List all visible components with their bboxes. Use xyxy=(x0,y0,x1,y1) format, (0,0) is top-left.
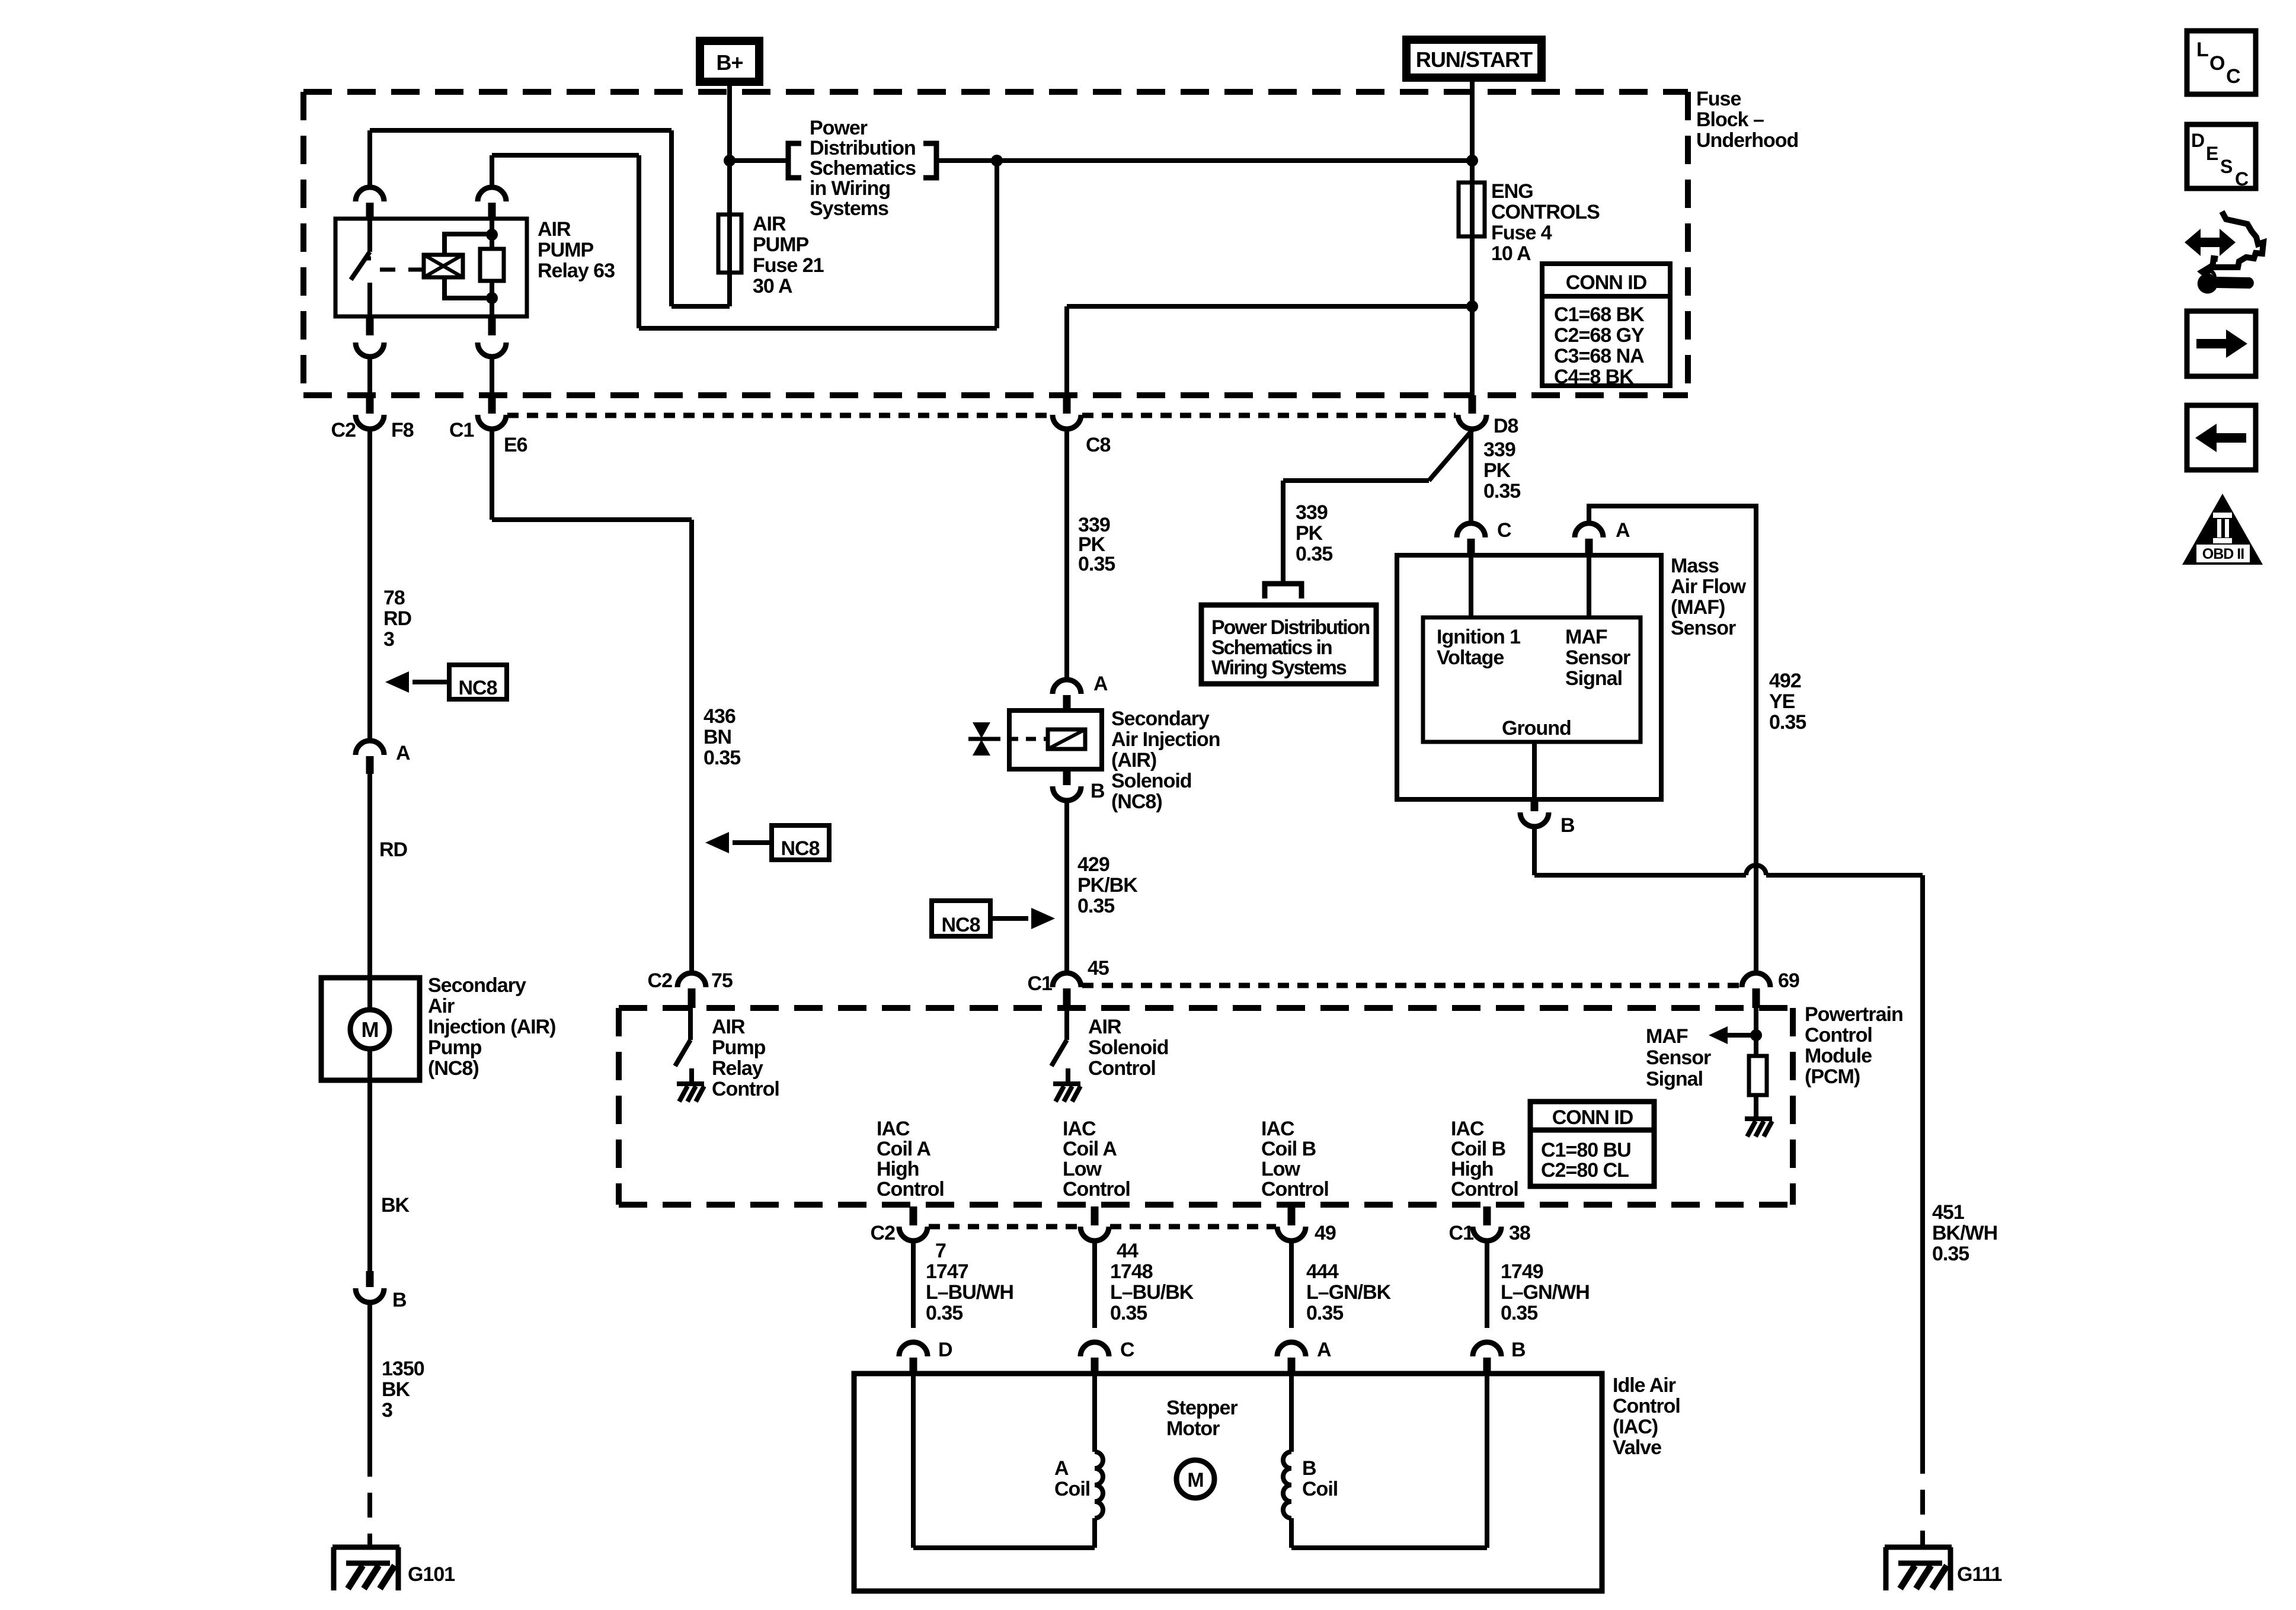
svg-text:Relay 63: Relay 63 xyxy=(538,260,615,282)
svg-text:44: 44 xyxy=(1117,1240,1139,1262)
PCM dashed border xyxy=(619,1005,1793,1011)
relay coil bottom wire xyxy=(445,277,492,298)
IAC connector dotted line xyxy=(929,1224,1079,1230)
svg-text:Coil B: Coil B xyxy=(1261,1138,1316,1160)
fuse block connector dotted line xyxy=(507,413,1051,418)
connector pin 44 IAC wire 1748 L-BU/BK xyxy=(1091,1206,1099,1225)
connector pin A AIR solenoid xyxy=(1053,680,1081,694)
connector C2 pin F8 xyxy=(366,395,374,414)
junction RUN/START power distribution xyxy=(1466,155,1478,167)
svg-text:G111: G111 xyxy=(1957,1563,2002,1586)
svg-text:M: M xyxy=(1187,1469,1203,1491)
svg-text:C2=80 CL: C2=80 CL xyxy=(1541,1159,1629,1182)
svg-text:45: 45 xyxy=(1088,957,1109,980)
svg-text:M: M xyxy=(362,1017,379,1042)
ground G101 xyxy=(332,1545,399,1550)
svg-text:Block –: Block – xyxy=(1696,108,1764,131)
arrow MAF sensor signal xyxy=(1709,1026,1728,1044)
svg-text:Low: Low xyxy=(1261,1158,1301,1180)
svg-text:BN: BN xyxy=(703,726,731,748)
svg-text:451: 451 xyxy=(1932,1201,1964,1224)
wire 78 RD from F8 to AIR pump xyxy=(367,429,372,741)
svg-text:O: O xyxy=(2209,52,2225,75)
svg-text:Schematics: Schematics xyxy=(810,157,916,180)
wire 1350 BK dashed section xyxy=(367,1452,372,1547)
svg-text:C: C xyxy=(2235,168,2249,190)
connector pin 49 IAC wire 444 L-GN/BK xyxy=(1288,1206,1296,1225)
svg-text:Secondary: Secondary xyxy=(428,974,526,997)
connector pin A AIR pump xyxy=(356,741,384,755)
svg-text:Ignition 1: Ignition 1 xyxy=(1437,626,1520,648)
ground PCM solenoid control xyxy=(1053,1081,1080,1086)
svg-text:B: B xyxy=(1560,814,1575,837)
svg-text:RD: RD xyxy=(379,838,408,861)
svg-text:B: B xyxy=(1091,780,1105,802)
connector pin B MAF xyxy=(1531,799,1539,811)
svg-text:S: S xyxy=(2220,156,2233,177)
svg-text:C8: C8 xyxy=(1086,434,1111,456)
icon schematic reference double arrow xyxy=(2185,229,2236,256)
connector pin B AIR pump xyxy=(366,1271,374,1287)
svg-text:A: A xyxy=(1054,1457,1069,1480)
svg-text:1748: 1748 xyxy=(1110,1260,1153,1283)
wire relay pin E6 down xyxy=(490,357,494,398)
ground G111 xyxy=(1885,1545,1952,1550)
power symbol RUN/START xyxy=(1406,40,1542,78)
svg-text:CONN ID: CONN ID xyxy=(1566,271,1647,294)
wire relay pin F8 down xyxy=(367,357,372,398)
solenoid coil rect with diagonal xyxy=(1048,729,1085,749)
MAF sensor inner box xyxy=(1423,617,1641,742)
connector pin A IAC valve xyxy=(1277,1342,1306,1356)
svg-text:C1: C1 xyxy=(1028,972,1053,995)
svg-text:7: 7 xyxy=(935,1240,946,1262)
reference box Power Distribution Schematics in Wiring Systems xyxy=(1201,605,1376,684)
svg-text:L–BU/BK: L–BU/BK xyxy=(1110,1281,1194,1304)
svg-text:L–GN/BK: L–GN/BK xyxy=(1306,1281,1392,1304)
power symbol B+ xyxy=(700,41,759,82)
relay mechanical link dashes xyxy=(380,268,423,272)
svg-text:Control: Control xyxy=(1063,1178,1130,1201)
svg-text:NC8: NC8 xyxy=(458,677,497,699)
fuse F4 ENG CONTROLS 10A xyxy=(1459,183,1485,236)
connector pin 38 C1 IAC wire 1749 L-GN/WH xyxy=(1483,1206,1491,1225)
svg-text:Distribution: Distribution xyxy=(810,137,916,159)
svg-text:Idle Air: Idle Air xyxy=(1613,1374,1676,1397)
wire 451 dashed section xyxy=(1920,1449,1925,1547)
svg-text:C2: C2 xyxy=(331,419,356,441)
svg-text:Control: Control xyxy=(1088,1057,1156,1080)
reference NC8 arrow to 78 RD xyxy=(449,665,507,699)
svg-text:Coil A: Coil A xyxy=(877,1138,930,1160)
IAC coil A wires xyxy=(911,1374,916,1548)
svg-text:Signal: Signal xyxy=(1565,667,1622,690)
connector pin relay 86 top-left xyxy=(356,187,384,201)
svg-text:Injection (AIR): Injection (AIR) xyxy=(428,1016,555,1038)
svg-text:B+: B+ xyxy=(716,50,743,75)
IAC coil A winding xyxy=(1095,1452,1103,1518)
svg-text:L–GN/WH: L–GN/WH xyxy=(1501,1281,1590,1304)
svg-text:PUMP: PUMP xyxy=(753,233,809,256)
svg-text:Low: Low xyxy=(1063,1158,1102,1180)
svg-text:0.35: 0.35 xyxy=(1483,480,1520,502)
svg-text:C: C xyxy=(1497,519,1511,542)
svg-text:B: B xyxy=(392,1289,407,1311)
svg-text:IAC: IAC xyxy=(1451,1118,1484,1140)
icon schematic reference outline xyxy=(2212,212,2263,267)
svg-text:Coil: Coil xyxy=(1054,1478,1090,1500)
svg-text:Air Flow: Air Flow xyxy=(1671,575,1747,598)
MAF signal wire and junction xyxy=(1754,1008,1758,1035)
junction relay coil bottom xyxy=(486,292,498,304)
svg-text:NC8: NC8 xyxy=(781,837,819,860)
svg-text:0.35: 0.35 xyxy=(1078,553,1115,575)
svg-text:Control: Control xyxy=(1805,1024,1872,1046)
svg-text:D: D xyxy=(938,1339,952,1361)
wire B+ to fuse 21 xyxy=(727,86,732,276)
PCM input resistor xyxy=(1754,1035,1758,1056)
svg-text:1350: 1350 xyxy=(382,1358,424,1380)
svg-text:429: 429 xyxy=(1077,853,1109,876)
icon forward arrow box xyxy=(2187,311,2256,376)
svg-text:75: 75 xyxy=(711,969,733,992)
svg-text:AIR: AIR xyxy=(753,213,786,235)
PCM connector dotted line xyxy=(1082,983,1741,988)
svg-text:PK/BK: PK/BK xyxy=(1077,874,1138,897)
IAC coil B winding xyxy=(1283,1452,1291,1518)
ground PCM relay control xyxy=(677,1081,704,1086)
svg-text:0.35: 0.35 xyxy=(1296,543,1332,565)
svg-text:C4=8 BK: C4=8 BK xyxy=(1554,366,1634,388)
reference NC8 arrow to 436 BN xyxy=(772,825,829,860)
wire 451 BK/WH xyxy=(1920,875,1925,1449)
svg-text:OBD II: OBD II xyxy=(2202,546,2244,562)
reference bracket down to power distribution xyxy=(1265,584,1302,598)
junction node relay coil feed xyxy=(991,155,1003,167)
svg-text:Solenoid: Solenoid xyxy=(1088,1036,1169,1059)
svg-text:L–BU/WH: L–BU/WH xyxy=(926,1281,1013,1304)
relay coil top wire xyxy=(445,234,492,255)
svg-text:Valve: Valve xyxy=(1613,1436,1661,1459)
wire MAF A to 492 YE xyxy=(1589,506,1756,973)
svg-text:C1: C1 xyxy=(1449,1222,1474,1244)
wire 339 PK branch diagonal xyxy=(1429,430,1472,481)
svg-text:PK: PK xyxy=(1483,459,1511,482)
svg-text:C: C xyxy=(2226,65,2240,88)
svg-text:(MAF): (MAF) xyxy=(1671,596,1725,619)
relay box AIR PUMP Relay 63 xyxy=(335,219,527,316)
svg-text:Voltage: Voltage xyxy=(1437,646,1504,669)
svg-text:MAF: MAF xyxy=(1646,1025,1688,1048)
svg-text:A: A xyxy=(1616,519,1630,542)
svg-text:CONTROLS: CONTROLS xyxy=(1491,201,1600,223)
svg-text:C1=68 BK: C1=68 BK xyxy=(1554,303,1645,326)
svg-text:A: A xyxy=(1317,1339,1331,1361)
fuse F21 AIR PUMP 30A xyxy=(718,215,741,273)
svg-text:0.35: 0.35 xyxy=(1306,1302,1343,1324)
svg-text:3: 3 xyxy=(383,628,394,651)
svg-text:0.35: 0.35 xyxy=(1769,711,1806,734)
junction node B+ xyxy=(724,155,736,167)
solenoid mechanical link dashes xyxy=(990,737,1048,741)
svg-text:Fuse 4: Fuse 4 xyxy=(1491,222,1552,244)
connector pin relay 87 bottom-right xyxy=(488,316,496,335)
svg-text:Underhood: Underhood xyxy=(1696,129,1798,152)
svg-text:in Wiring: in Wiring xyxy=(810,177,890,200)
svg-text:(PCM): (PCM) xyxy=(1805,1065,1860,1088)
svg-text:Coil B: Coil B xyxy=(1451,1138,1506,1160)
icon LOC box xyxy=(2187,31,2256,94)
svg-text:Air: Air xyxy=(428,995,455,1017)
svg-text:IAC: IAC xyxy=(877,1118,910,1140)
svg-text:A: A xyxy=(396,742,410,764)
svg-text:Solenoid: Solenoid xyxy=(1111,770,1192,792)
AIR pump motor circle xyxy=(350,1010,389,1049)
svg-text:(AIR): (AIR) xyxy=(1111,749,1156,772)
svg-text:D8: D8 xyxy=(1494,415,1518,437)
svg-text:B: B xyxy=(1511,1339,1526,1361)
svg-text:Control: Control xyxy=(1261,1178,1329,1201)
svg-text:339: 339 xyxy=(1483,438,1515,461)
svg-text:C1: C1 xyxy=(449,419,474,441)
svg-text:Sensor: Sensor xyxy=(1646,1046,1711,1069)
svg-text:Sensor: Sensor xyxy=(1565,646,1630,669)
svg-text:IAC: IAC xyxy=(1063,1118,1096,1140)
svg-text:Secondary: Secondary xyxy=(1111,708,1210,730)
svg-text:(NC8): (NC8) xyxy=(1111,790,1162,813)
wire MAF ground pin B xyxy=(1532,742,1537,799)
svg-text:Stepper: Stepper xyxy=(1166,1397,1237,1419)
connector C1 pin E6 xyxy=(488,395,496,414)
wire 1350 BK to G101 xyxy=(367,1302,372,1452)
svg-text:1747: 1747 xyxy=(926,1260,968,1283)
reference bracket left xyxy=(788,143,801,178)
svg-text:0.35: 0.35 xyxy=(1077,895,1114,917)
svg-text:Module: Module xyxy=(1805,1045,1872,1067)
junction ENG fuse output xyxy=(1466,300,1478,312)
svg-text:Motor: Motor xyxy=(1166,1417,1220,1440)
wire 339 PK C8 to solenoid A xyxy=(1064,429,1069,680)
svg-text:High: High xyxy=(1451,1158,1494,1180)
relay resistor bottom wire xyxy=(490,281,494,316)
svg-text:PUMP: PUMP xyxy=(538,239,594,261)
connector pin D8 xyxy=(1469,395,1476,414)
svg-text:YE: YE xyxy=(1769,690,1795,713)
wire RUN/START down to D8 xyxy=(1470,78,1475,398)
svg-text:E: E xyxy=(2206,143,2218,164)
svg-text:Control: Control xyxy=(712,1078,779,1100)
AIR solenoid box xyxy=(1009,710,1102,769)
svg-text:Fuse: Fuse xyxy=(1696,88,1741,110)
svg-text:C: C xyxy=(1120,1339,1134,1361)
connector pin A MAF xyxy=(1575,523,1603,537)
icon DESC box xyxy=(2187,124,2256,188)
connector pin 75 C2 PCM xyxy=(677,973,706,987)
svg-text:E6: E6 xyxy=(504,434,527,456)
relay coil box with X xyxy=(424,255,463,277)
svg-text:(NC8): (NC8) xyxy=(428,1057,479,1080)
wire ENG fuse to C8 xyxy=(1067,304,1472,309)
svg-text:69: 69 xyxy=(1778,969,1799,992)
connector pin C8 xyxy=(1064,306,1069,398)
connector pin B IAC valve xyxy=(1473,1342,1501,1356)
wire relay switch feed from fuse 21 xyxy=(727,273,732,306)
IAC valve box xyxy=(854,1374,1602,1591)
connector pin relay 85 top-right xyxy=(478,187,506,201)
svg-text:Relay: Relay xyxy=(712,1057,763,1080)
svg-text:Power: Power xyxy=(810,117,868,139)
svg-text:49: 49 xyxy=(1315,1222,1336,1244)
svg-text:Schematics in: Schematics in xyxy=(1211,636,1332,659)
svg-text:0.35: 0.35 xyxy=(1501,1302,1537,1324)
svg-text:Coil: Coil xyxy=(1302,1478,1338,1500)
wire BK pump to ground xyxy=(367,1049,372,1271)
wire 339 PK D8 down to MAF C xyxy=(1469,429,1473,524)
svg-text:78: 78 xyxy=(383,587,405,609)
connector pin D IAC valve xyxy=(899,1342,928,1356)
svg-text:RD: RD xyxy=(383,607,412,630)
wire RD to pump xyxy=(367,774,372,1010)
solenoid valve bowtie xyxy=(973,722,990,738)
svg-text:Power Distribution: Power Distribution xyxy=(1211,616,1369,639)
svg-text:Coil A: Coil A xyxy=(1063,1138,1117,1160)
svg-text:Control: Control xyxy=(877,1178,944,1201)
svg-text:Control: Control xyxy=(1613,1395,1680,1417)
reference bracket right xyxy=(923,143,936,178)
junction relay coil top xyxy=(486,229,498,241)
table CONN ID PCM xyxy=(1530,1102,1654,1186)
relay resistor xyxy=(490,219,494,249)
svg-text:RUN/START: RUN/START xyxy=(1416,47,1533,72)
svg-text:High: High xyxy=(877,1158,919,1180)
wire 436 BN from E6 to PCM 75 xyxy=(490,429,494,520)
svg-text:BK: BK xyxy=(381,1194,410,1217)
svg-text:Fuse 21: Fuse 21 xyxy=(753,254,824,277)
svg-text:C2=68 GY: C2=68 GY xyxy=(1554,324,1645,347)
svg-text:PK: PK xyxy=(1296,522,1323,545)
svg-text:Control: Control xyxy=(1451,1178,1518,1201)
svg-text:Pump: Pump xyxy=(428,1036,482,1059)
svg-text:ENG: ENG xyxy=(1491,180,1533,203)
svg-text:NC8: NC8 xyxy=(941,914,980,936)
svg-text:492: 492 xyxy=(1769,670,1801,692)
connector pin C MAF xyxy=(1457,523,1485,537)
svg-text:BK: BK xyxy=(382,1378,411,1401)
wire MAF B ground to 451 xyxy=(1532,827,1537,875)
MAF sensor outer box xyxy=(1397,555,1661,799)
svg-text:F8: F8 xyxy=(391,419,414,441)
svg-text:3: 3 xyxy=(382,1399,392,1422)
svg-text:AIR: AIR xyxy=(538,218,571,241)
icon OBD II triangle xyxy=(2182,494,2263,565)
svg-text:Sensor: Sensor xyxy=(1671,617,1736,639)
AIR pump box xyxy=(321,978,420,1080)
svg-text:0.35: 0.35 xyxy=(926,1302,962,1324)
svg-text:30 A: 30 A xyxy=(753,275,792,297)
svg-text:444: 444 xyxy=(1306,1260,1339,1283)
svg-text:38: 38 xyxy=(1509,1222,1530,1244)
svg-text:L: L xyxy=(2196,39,2208,61)
MAF wires into inner box xyxy=(1469,555,1473,617)
AIR pump relay control switch xyxy=(688,1008,693,1040)
relay switch blade xyxy=(351,252,370,280)
connector pin C IAC valve xyxy=(1080,1342,1109,1356)
table CONN ID fuse block xyxy=(1542,264,1670,386)
svg-text:0.35: 0.35 xyxy=(1932,1243,1969,1265)
svg-text:C2: C2 xyxy=(648,969,673,992)
wire crossover hop over 492 YE xyxy=(1746,865,1766,875)
icon wrench xyxy=(2197,263,2254,294)
connector pin B AIR solenoid xyxy=(1063,769,1071,785)
svg-text:CONN ID: CONN ID xyxy=(1552,1106,1633,1129)
IAC motor circle xyxy=(1176,1460,1214,1498)
svg-text:Systems: Systems xyxy=(810,197,888,220)
svg-text:10 A: 10 A xyxy=(1491,242,1531,265)
svg-text:AIR: AIR xyxy=(1088,1016,1121,1038)
svg-text:(IAC): (IAC) xyxy=(1613,1416,1658,1438)
svg-text:A: A xyxy=(1093,673,1108,695)
svg-text:Mass: Mass xyxy=(1671,555,1719,577)
svg-text:0.35: 0.35 xyxy=(1110,1302,1147,1324)
svg-text:C2: C2 xyxy=(871,1222,896,1244)
svg-text:1749: 1749 xyxy=(1501,1260,1543,1283)
svg-text:MAF: MAF xyxy=(1565,626,1607,648)
svg-text:IAC: IAC xyxy=(1261,1118,1294,1140)
svg-text:Pump: Pump xyxy=(712,1036,766,1059)
wire B+ junction to reference bracket xyxy=(730,158,786,163)
icon back arrow box xyxy=(2187,405,2256,470)
connector pin relay 30 bottom-left xyxy=(366,316,374,335)
svg-text:AIR: AIR xyxy=(712,1016,745,1038)
svg-text:Signal: Signal xyxy=(1646,1068,1703,1090)
wire relay coil pin upper xyxy=(490,155,494,187)
wire junction down to relay coil xyxy=(994,161,999,328)
svg-text:G101: G101 xyxy=(408,1563,455,1586)
svg-text:D: D xyxy=(2191,130,2204,151)
svg-text:Ground: Ground xyxy=(1502,717,1571,740)
AIR solenoid control switch xyxy=(1064,1008,1069,1040)
relay switch wire xyxy=(367,219,372,252)
svg-text:Wiring Systems: Wiring Systems xyxy=(1211,657,1347,679)
IAC coil B wires xyxy=(1485,1374,1489,1548)
connector pin 7 C2 IAC wire 1747 L-BU/WH xyxy=(910,1206,917,1225)
wire RUN/START feed from power distribution xyxy=(939,158,1472,163)
svg-text:Powertrain: Powertrain xyxy=(1805,1003,1903,1026)
svg-text:B: B xyxy=(1302,1457,1316,1480)
wire 429 PK/BK xyxy=(1064,801,1069,973)
svg-text:0.35: 0.35 xyxy=(703,747,740,769)
svg-text:BK/WH: BK/WH xyxy=(1932,1222,1997,1244)
ground PCM MAF signal xyxy=(1745,1116,1772,1121)
svg-text:339: 339 xyxy=(1296,501,1328,524)
svg-text:436: 436 xyxy=(703,705,736,728)
svg-text:C1=80 BU: C1=80 BU xyxy=(1541,1139,1631,1161)
connector pin 69 PCM xyxy=(1742,973,1770,987)
svg-text:C3=68 NA: C3=68 NA xyxy=(1554,345,1644,367)
connector pin 45 C1 PCM xyxy=(1053,973,1081,987)
svg-text:Air Injection: Air Injection xyxy=(1111,728,1220,751)
fuse block underhood dashed border xyxy=(303,89,1688,95)
reference NC8 arrow to 429 xyxy=(932,901,990,936)
